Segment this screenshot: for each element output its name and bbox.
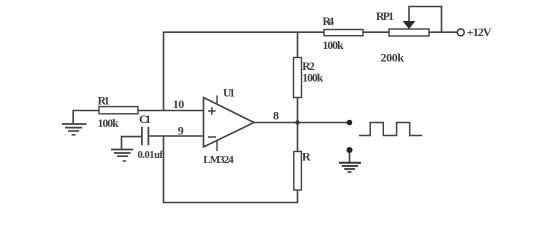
svg-text:R2: R2 bbox=[302, 61, 315, 73]
svg-text:U1: U1 bbox=[223, 88, 235, 100]
svg-text:C1: C1 bbox=[139, 112, 151, 126]
svg-text:200k: 200k bbox=[381, 51, 405, 65]
svg-text:10: 10 bbox=[173, 97, 185, 111]
svg-text:8: 8 bbox=[273, 109, 279, 123]
svg-text:100k: 100k bbox=[98, 118, 120, 130]
svg-text:LM324: LM324 bbox=[203, 154, 234, 166]
svg-text:R1: R1 bbox=[98, 96, 110, 108]
svg-text:+12V: +12V bbox=[467, 25, 492, 39]
svg-text:R: R bbox=[302, 150, 311, 164]
svg-text:0.01uf: 0.01uf bbox=[138, 150, 164, 161]
svg-text:100k: 100k bbox=[302, 73, 324, 85]
svg-text:9: 9 bbox=[178, 123, 184, 137]
svg-text:R4: R4 bbox=[323, 16, 335, 28]
svg-text:RP1: RP1 bbox=[376, 11, 394, 23]
svg-text:100k: 100k bbox=[323, 40, 345, 52]
